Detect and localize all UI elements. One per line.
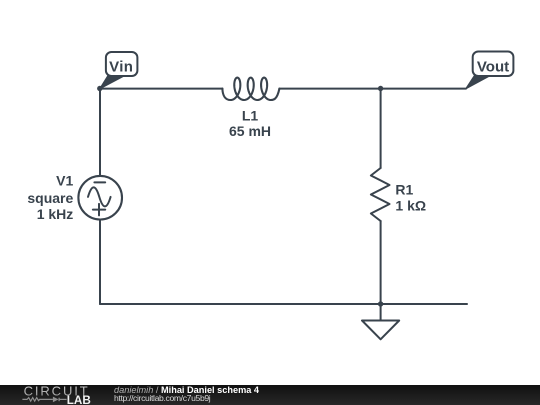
junction dot top right (378, 86, 383, 91)
node flag Vout box (473, 52, 514, 77)
wire right vertical bottom (R1 to bottom rail) (380, 221, 382, 304)
wire bottom rail (100, 303, 467, 305)
logo diode triangle (53, 397, 59, 403)
node flag Vin text (109, 58, 133, 75)
value 1 kOhm (395, 198, 426, 214)
svg-text:LAB: LAB (67, 394, 91, 405)
ground symbol (362, 321, 399, 340)
junction dot ground node (378, 301, 383, 306)
node flag Vin box (106, 52, 137, 76)
junction dot Vin node (97, 86, 102, 91)
value 65 mH (229, 123, 271, 139)
ground stem (380, 304, 382, 321)
node flag Vin tail (100, 75, 126, 90)
svg-text:http://circuitlab.com/c7u5b9j: http://circuitlab.com/c7u5b9j (114, 393, 211, 403)
label L1 (242, 108, 259, 124)
V1 sine wave (88, 187, 111, 206)
logo resistor-diode glyph (22, 398, 66, 402)
footer bar (0, 385, 540, 405)
footer url line (114, 393, 211, 403)
wire L1 to junction (279, 88, 380, 90)
resistor R1 (371, 168, 390, 221)
wire junction to Vout tail (381, 88, 466, 90)
label V1 square 1 kHz (27, 173, 73, 222)
node flag Vout tail (466, 75, 491, 90)
logo LAB text (67, 394, 91, 405)
wire left vertical top (node to V1) (99, 89, 101, 176)
wire left vertical bottom (V1 to bottom rail) (99, 220, 101, 304)
V1 plus sign (93, 204, 105, 216)
voltage source V1 circle (78, 176, 122, 220)
wire top-left horizontal (Vin node to L1) (100, 88, 222, 90)
node flag Vout text (477, 59, 509, 76)
wire right vertical top (junction to R1) (380, 89, 382, 168)
V1 minus sign (94, 181, 105, 183)
footer title line (114, 385, 260, 395)
inductor L1 (222, 78, 279, 100)
logo CIRCUIT text (24, 383, 90, 398)
label R1 (395, 181, 413, 197)
